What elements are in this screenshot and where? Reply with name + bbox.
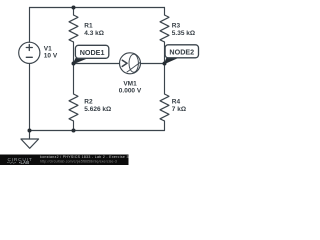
resistor R3 <box>160 15 169 42</box>
voltage source V1 <box>19 42 40 63</box>
wire right branch R3 to node B <box>164 42 166 64</box>
wire voltmeter right lead <box>140 63 164 65</box>
svg-text:NODE1: NODE1 <box>80 48 105 57</box>
node NODE2 flag <box>165 45 199 64</box>
wire right branch top stub <box>164 8 166 16</box>
wire middle branch R2 to bottom rail <box>73 121 75 131</box>
wire bottom rail <box>30 130 165 132</box>
node NODE1 flag <box>74 45 109 63</box>
svg-text:V1: V1 <box>44 45 52 52</box>
wire left branch upper (V1 top lead) <box>29 8 31 43</box>
svg-text:R1: R1 <box>84 23 93 30</box>
svg-text:konstanz2 / PHYSICS 1833 - Lab: konstanz2 / PHYSICS 1833 - Lab 2 - Exerc… <box>40 155 129 159</box>
voltmeter VM1 body <box>120 53 141 74</box>
node A junction dot (NODE1) <box>72 62 76 66</box>
wire middle branch R1 to node A <box>73 42 75 64</box>
svg-text:5.626 kΩ: 5.626 kΩ <box>84 106 111 113</box>
wire top rail <box>30 7 165 9</box>
wire left branch lower (V1 bottom lead to bottom rail) <box>29 63 31 130</box>
watermark bar <box>0 155 129 166</box>
resistor R1 <box>69 15 78 42</box>
wire right branch R4 to bottom rail <box>164 121 166 131</box>
svg-text:▪LAB: ▪LAB <box>19 160 29 165</box>
svg-text:4.3 kΩ: 4.3 kΩ <box>84 30 104 37</box>
wire voltmeter left lead <box>74 63 120 65</box>
watermark CircuitLab logo <box>7 157 33 165</box>
svg-text:R3: R3 <box>172 23 181 30</box>
svg-text:NODE2: NODE2 <box>169 48 194 57</box>
svg-text:0.000 V: 0.000 V <box>119 88 142 95</box>
svg-text:R2: R2 <box>84 99 93 106</box>
junction dot bottom rail / R2 <box>72 129 76 133</box>
resistor R4 <box>160 94 169 121</box>
wire middle branch top stub <box>73 8 75 16</box>
junction dot bottom rail / ground <box>28 129 32 133</box>
wire right branch node B to R4 <box>164 64 166 95</box>
resistor R2 <box>69 94 78 121</box>
svg-text:http://circuitlab.com/c/pe5f86: http://circuitlab.com/c/pe5f8658n9q/exer… <box>40 160 117 164</box>
svg-text:7 kΩ: 7 kΩ <box>172 106 186 113</box>
wire middle branch node A to R2 <box>73 64 75 95</box>
svg-text:10 V: 10 V <box>44 52 58 59</box>
node B junction dot (NODE2) <box>163 62 167 66</box>
ground <box>29 131 31 140</box>
svg-text:VM1: VM1 <box>123 81 137 88</box>
junction dot top rail / R1 <box>72 6 76 10</box>
svg-text:R4: R4 <box>172 99 181 106</box>
svg-text:5.35 kΩ: 5.35 kΩ <box>172 30 195 37</box>
